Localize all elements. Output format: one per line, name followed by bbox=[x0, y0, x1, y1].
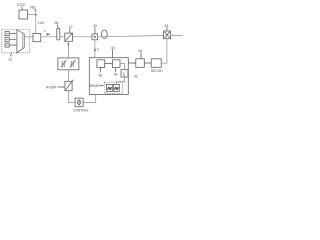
svg-text:94: 94 bbox=[164, 24, 168, 28]
wire arrow S1 bbox=[10, 33, 15, 35]
source box S1 bbox=[5, 32, 9, 36]
svg-text:MEMO: MEMO bbox=[90, 84, 100, 88]
wire arrow 64 to decoder bbox=[144, 62, 149, 64]
leader 64 bbox=[140, 52, 142, 58]
wire HV cell to control bbox=[68, 91, 75, 103]
wire vertical to modulator M1 bbox=[35, 10, 37, 34]
wire splitter down bbox=[67, 41, 69, 58]
memory dashed box bbox=[104, 82, 122, 93]
wire axis segment D bbox=[73, 36, 93, 38]
source box S2 bbox=[5, 37, 9, 41]
svg-text:2: 2 bbox=[44, 29, 46, 33]
wire arrow memo bbox=[100, 84, 103, 86]
scan mirror 94 bbox=[164, 31, 171, 39]
converter box lambda bbox=[121, 70, 128, 78]
svg-text:CO2: CO2 bbox=[17, 2, 26, 7]
leader 40 bbox=[112, 49, 114, 57]
waveplate 106 bbox=[57, 28, 60, 40]
svg-text:36: 36 bbox=[114, 73, 118, 77]
shutter box 130 bbox=[92, 34, 98, 40]
inner box 36 bbox=[113, 60, 121, 68]
control box bbox=[75, 98, 83, 107]
wire arrow S3 bbox=[10, 44, 15, 46]
wire shutter to processor bbox=[94, 40, 96, 58]
wire arrow 38 to 36 bbox=[105, 63, 111, 65]
wire CO2 to node bbox=[28, 14, 36, 16]
memory cell B bbox=[113, 84, 119, 91]
leader CO2 bbox=[21, 7, 24, 10]
processor enclosure 40 bbox=[89, 58, 128, 95]
leader 94 bbox=[166, 27, 168, 31]
detector pair box bbox=[58, 58, 79, 70]
svg-text:06: 06 bbox=[54, 21, 58, 25]
prism combiner bbox=[17, 30, 24, 53]
wire mirror to decoder bbox=[161, 39, 167, 64]
svg-text:4: 4 bbox=[97, 48, 99, 52]
wire arrow hvsw bbox=[57, 86, 63, 88]
wire arrow bigbox to 64 bbox=[128, 62, 134, 64]
modulator box M1 bbox=[33, 33, 41, 41]
beam direction arrow bbox=[47, 33, 51, 36]
laser source box CO2 bbox=[19, 10, 28, 19]
wire axis segment E bbox=[98, 36, 164, 37]
svg-text:12: 12 bbox=[69, 25, 73, 29]
decoder box bbox=[151, 59, 161, 68]
leader 06 bbox=[56, 24, 59, 28]
lens bbox=[102, 30, 108, 39]
svg-text:142: 142 bbox=[38, 21, 44, 25]
svg-text:38: 38 bbox=[98, 73, 102, 77]
wire 36 to lambda bbox=[120, 64, 125, 70]
svg-text:DECOD: DECOD bbox=[151, 69, 164, 73]
inner box 38 bbox=[97, 60, 105, 68]
dashed enclosure source unit bbox=[2, 30, 30, 53]
svg-text:HVSW: HVSW bbox=[46, 86, 57, 90]
source box S3 bbox=[5, 43, 9, 47]
leader RE bbox=[35, 9, 36, 11]
wire axis segment B bbox=[41, 36, 57, 38]
svg-text:CONTROL: CONTROL bbox=[73, 109, 89, 113]
svg-text:16: 16 bbox=[8, 58, 12, 62]
wire detector to HV cell bbox=[67, 70, 69, 82]
label 16 bbox=[11, 53, 12, 57]
svg-text:32: 32 bbox=[134, 74, 138, 78]
leader 30 bbox=[94, 27, 96, 33]
svg-text:64: 64 bbox=[138, 49, 142, 53]
wire axis segment C bbox=[60, 36, 65, 38]
amp box 64 bbox=[136, 59, 145, 68]
beam splitter 112 bbox=[65, 33, 73, 41]
memory cell A bbox=[106, 84, 112, 91]
svg-text:λ: λ bbox=[123, 72, 126, 77]
wire arrow S2 bbox=[10, 38, 15, 40]
arrowhead down at node bbox=[35, 14, 37, 17]
wire axis stub right bbox=[171, 34, 183, 36]
wire control to processor bbox=[83, 94, 96, 102]
wire axis segment A bbox=[24, 36, 33, 38]
HV cell box bbox=[65, 81, 72, 90]
svg-text:RE: RE bbox=[30, 5, 36, 10]
wire lambda to memory bbox=[117, 77, 125, 84]
leader 12 bbox=[68, 28, 71, 33]
